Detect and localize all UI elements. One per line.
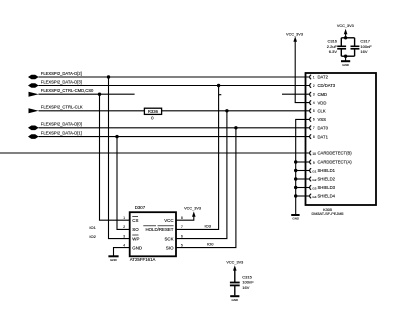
wire VSS to GND vertical bbox=[296, 119, 310, 214]
wire SHIELD2 stub bbox=[296, 178, 310, 180]
svg-text:SO: SO bbox=[132, 227, 139, 232]
svg-text:GND: GND bbox=[231, 298, 239, 302]
svg-text:SHIELD2: SHIELD2 bbox=[318, 177, 336, 182]
pin 1 DAT2 bbox=[310, 75, 312, 79]
svg-text:DAT1: DAT1 bbox=[318, 134, 329, 139]
wire FLEXSPI2_CTRL-CLK left segment bbox=[39, 110, 145, 112]
wire cap bottom rail bbox=[341, 55, 354, 57]
svg-text:CMD: CMD bbox=[318, 92, 328, 97]
svg-text:VDD: VDD bbox=[318, 100, 327, 105]
svg-text:IO0: IO0 bbox=[207, 241, 214, 246]
pin 6 VSS bbox=[310, 117, 312, 121]
pin 3 CMD bbox=[310, 92, 312, 96]
svg-text:VCC_3V3: VCC_3V3 bbox=[337, 24, 354, 28]
svg-text:DM3AT-SF-PEJM5: DM3AT-SF-PEJM5 bbox=[312, 212, 344, 216]
svg-text:6: 6 bbox=[313, 118, 315, 122]
wire FLEXSPI2_DATA-D[2] bbox=[39, 76, 310, 78]
svg-text:IO1: IO1 bbox=[89, 225, 96, 230]
wire flash VCC to VCC_3V3 bbox=[176, 216, 194, 220]
svg-text:SHIELD3: SHIELD3 bbox=[318, 185, 336, 190]
wire VDD stub bbox=[295, 101, 309, 104]
svg-text:6.3V: 6.3V bbox=[329, 49, 338, 54]
bus entry arrow D[3] bbox=[28, 83, 39, 88]
wire WP vertical from D[2] line to flash bbox=[109, 77, 130, 239]
svg-text:HOLD/RESET: HOLD/RESET bbox=[145, 227, 173, 232]
svg-text:WP: WP bbox=[132, 236, 139, 241]
svg-text:1: 1 bbox=[313, 75, 315, 79]
svg-text:SHIELD4: SHIELD4 bbox=[318, 194, 336, 199]
wire SIO to D[0] bbox=[176, 128, 236, 248]
wire FLEXSPI2_CTRL-CMD,CS0 bbox=[39, 93, 135, 95]
svg-text:0: 0 bbox=[151, 116, 154, 121]
svg-text:10: 10 bbox=[312, 152, 316, 156]
svg-text:SCK: SCK bbox=[164, 236, 173, 241]
svg-text:IO3: IO3 bbox=[205, 224, 212, 229]
svg-text:9: 9 bbox=[313, 161, 315, 165]
svg-text:GND: GND bbox=[110, 258, 118, 262]
svg-text:4: 4 bbox=[313, 101, 315, 105]
bus entry arrow D[1] bbox=[28, 134, 39, 139]
svg-text:FLEXSPI2_DATA-D[1]: FLEXSPI2_DATA-D[1] bbox=[41, 131, 82, 136]
wire SHIELD1 stub bbox=[296, 170, 310, 172]
capacitor C317 bbox=[354, 38, 356, 46]
wire CARDDETECT(B) long line bbox=[0, 152, 310, 154]
svg-text:DAT2: DAT2 bbox=[318, 75, 329, 80]
svg-text:8: 8 bbox=[313, 135, 315, 139]
wire FLEXSPI2_DATA-D[1] bbox=[39, 136, 310, 138]
node junction CLK/SCK bbox=[225, 109, 228, 112]
pin 9 CARDDETECT(A) bbox=[310, 160, 312, 164]
wire SCK to CLK bbox=[176, 111, 227, 239]
wire SHIELD3 stub bbox=[296, 187, 310, 189]
svg-text:CARDDETECT(A): CARDDETECT(A) bbox=[318, 160, 353, 165]
svg-text:2: 2 bbox=[123, 225, 125, 229]
bus entry arrow CMD,CS0 bbox=[29, 92, 39, 97]
svg-text:2: 2 bbox=[313, 84, 315, 88]
pin G1 SHIELD1 bbox=[310, 168, 312, 172]
wire FLEXSPI2_DATA-D[0] bbox=[39, 127, 310, 129]
svg-text:VCC_3V3: VCC_3V3 bbox=[184, 206, 201, 210]
svg-text:FLEXSPI2_DATA-D[0]: FLEXSPI2_DATA-D[0] bbox=[41, 122, 82, 127]
wire flash GND stub bbox=[114, 248, 130, 256]
svg-text:FLEXSPI2_CTRL-CLK: FLEXSPI2_CTRL-CLK bbox=[41, 105, 83, 110]
wire CARDDETECT(A) stub bbox=[296, 161, 310, 163]
svg-text:SHIELD1: SHIELD1 bbox=[318, 168, 336, 173]
svg-text:6: 6 bbox=[181, 234, 183, 238]
pin G2 SHIELD2 bbox=[310, 177, 312, 181]
svg-text:CLK: CLK bbox=[318, 109, 326, 114]
bus entry arrow D[0] bbox=[28, 126, 39, 131]
wire CMD stub to connector pin 3 bbox=[282, 93, 310, 95]
svg-text:VCC_3V3: VCC_3V3 bbox=[226, 260, 243, 264]
flash D307 body bbox=[130, 212, 176, 256]
pin G3 SHIELD3 bbox=[310, 185, 312, 189]
pin 5 CLK bbox=[310, 109, 312, 113]
svg-text:CD/DAT3: CD/DAT3 bbox=[318, 83, 336, 88]
wire SHIELD4 stub bbox=[296, 195, 310, 197]
node junction D[3]/IO3 bbox=[217, 84, 220, 87]
svg-text:SIO: SIO bbox=[166, 246, 174, 251]
svg-text:R336: R336 bbox=[148, 109, 159, 114]
svg-text:CS: CS bbox=[132, 218, 138, 223]
svg-text:DAT0: DAT0 bbox=[318, 126, 329, 131]
svg-text:VSS: VSS bbox=[318, 117, 327, 122]
svg-text:GND: GND bbox=[342, 63, 350, 67]
svg-text:FLEXSPI2_CTRL-CMD,CS0: FLEXSPI2_CTRL-CMD,CS0 bbox=[41, 88, 94, 93]
svg-text:VCC_3V3: VCC_3V3 bbox=[286, 32, 303, 36]
wire cap top rail bbox=[341, 37, 354, 39]
svg-text:FLEXSPI2_DATA-D[2]: FLEXSPI2_DATA-D[2] bbox=[41, 71, 82, 76]
svg-text:1: 1 bbox=[123, 216, 125, 220]
node junction CMD/CS bbox=[98, 93, 101, 96]
wire FLEXSPI2_DATA-D[3] bbox=[39, 85, 310, 87]
ground GND under caps bbox=[345, 56, 347, 61]
svg-text:GND: GND bbox=[292, 217, 300, 221]
pin G4 SHIELD4 bbox=[310, 194, 312, 198]
svg-text:7: 7 bbox=[181, 225, 183, 229]
node junction D[2]/WP bbox=[107, 75, 110, 78]
capacitor C316 bbox=[340, 38, 342, 46]
svg-text:CARDDETECT(B): CARDDETECT(B) bbox=[318, 151, 353, 156]
node junction D[1]/SO bbox=[115, 135, 118, 138]
pin 4 VDD bbox=[310, 101, 312, 105]
svg-text:16V: 16V bbox=[242, 285, 249, 290]
pin 8 DAT1 bbox=[310, 135, 312, 139]
svg-text:3: 3 bbox=[313, 93, 315, 97]
bus entry arrow CLK bbox=[29, 108, 39, 113]
wire CS vertical from CMD line to flash bbox=[100, 94, 130, 220]
svg-text:7: 7 bbox=[313, 126, 315, 130]
svg-text:G1: G1 bbox=[312, 170, 316, 174]
svg-text:D307: D307 bbox=[135, 205, 146, 210]
bus entry arrow D[2] bbox=[28, 75, 39, 80]
ground GND under connector bbox=[291, 214, 299, 216]
capacitor C315 bbox=[230, 282, 240, 284]
svg-text:5: 5 bbox=[181, 244, 183, 248]
connector K305 body bbox=[306, 73, 377, 205]
wire IO3 HOLD/RESET to D[3] bbox=[176, 96, 219, 230]
node junction VSS/CARDDETECT(A) bbox=[294, 160, 297, 163]
svg-text:IO2: IO2 bbox=[89, 234, 96, 239]
svg-text:G2: G2 bbox=[312, 178, 316, 182]
svg-text:AT25FF161A: AT25FF161A bbox=[130, 257, 156, 262]
resistor R336 bbox=[144, 108, 161, 114]
ground GND under flash bbox=[108, 255, 118, 257]
svg-text:FLEXSPI2_DATA-D[3]: FLEXSPI2_DATA-D[3] bbox=[41, 79, 82, 84]
node junction D[0]/SIO bbox=[234, 126, 237, 129]
pin 7 DAT0 bbox=[310, 126, 312, 130]
svg-text:3: 3 bbox=[123, 234, 125, 238]
svg-text:G4: G4 bbox=[312, 195, 316, 199]
wire CLK right segment to connector bbox=[162, 110, 310, 112]
svg-text:G3: G3 bbox=[312, 187, 316, 191]
svg-text:GND: GND bbox=[132, 246, 142, 251]
svg-text:5: 5 bbox=[313, 109, 315, 113]
svg-text:VCC: VCC bbox=[164, 218, 173, 223]
svg-text:8: 8 bbox=[181, 216, 183, 220]
pin 2 CD/DAT3 bbox=[310, 83, 312, 87]
ground GND under C315 bbox=[230, 295, 239, 297]
wire SO vertical from D[1] line to flash bbox=[117, 137, 130, 230]
svg-text:4: 4 bbox=[123, 244, 125, 248]
svg-text:16V: 16V bbox=[360, 49, 367, 54]
pin 10 CARDDETECT(B) bbox=[310, 151, 312, 155]
